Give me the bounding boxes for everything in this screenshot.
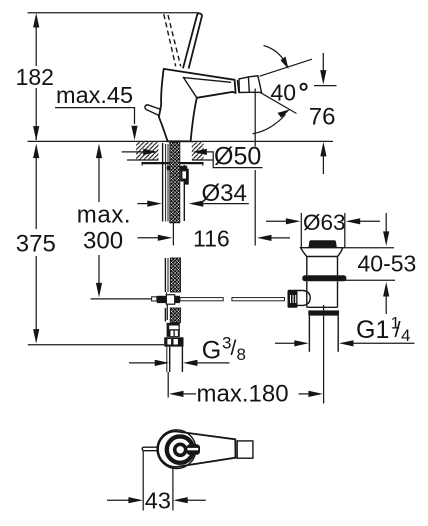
waste body upper: [306, 257, 308, 276]
dim arrows G1 1/4: [275, 340, 415, 346]
svg-text:4: 4: [401, 326, 410, 345]
40 degree lower line: [261, 93, 297, 114]
spout tip block: [239, 76, 262, 93]
deck bottom lines: [127, 159, 159, 161]
svg-text:116: 116: [193, 226, 230, 252]
upper arc with arrowhead: [264, 46, 287, 65]
dim arrows G3/8: [129, 360, 230, 366]
svg-text:Ø50: Ø50: [214, 142, 261, 170]
svg-text:375: 375: [16, 231, 56, 258]
svg-text:76: 76: [309, 104, 336, 131]
svg-text:max.: max.: [77, 202, 131, 229]
svg-text:max.45: max.45: [56, 82, 133, 108]
dim 182 vertical line: [33, 13, 39, 141]
diameter 63 extension lines: [300, 213, 302, 248]
outer thin circle: [157, 430, 196, 469]
deck reference line: [28, 140, 334, 142]
waste flange: [301, 248, 343, 257]
lower arc with arrowhead: [253, 115, 286, 134]
svg-text:40-53: 40-53: [358, 250, 417, 276]
temperature limiter pin (side view): [145, 105, 161, 116]
bottom reference line of 375: [28, 344, 164, 346]
dim 375 vertical line: [33, 144, 39, 344]
dim arrows diameter 50: [122, 149, 263, 168]
dim arrows 43: [107, 497, 206, 503]
svg-text:Ø63: Ø63: [303, 210, 346, 235]
lever stub top view: [187, 444, 201, 455]
waste top cap: [309, 240, 337, 247]
svg-text:Ø34: Ø34: [202, 180, 247, 207]
top reference line: [28, 12, 200, 14]
spout tip extension line: [254, 89, 256, 147]
dim arrows diameter 63: [266, 218, 380, 224]
shank and hoses upper segment: [162, 143, 164, 222]
dim 76 lower arrow at deck: [320, 142, 326, 174]
horizontal rod segment 2: [232, 298, 285, 301]
body outline top view: [158, 431, 236, 467]
locknut: [167, 166, 188, 170]
dim arrows diameter 34: [138, 201, 249, 207]
rod junction on faucet: [152, 297, 157, 301]
faucet centre line below hose: [172, 222, 174, 246]
dim 43 extension lines: [142, 451, 144, 511]
washer under deck: [142, 162, 204, 164]
svg-text:max.180: max.180: [197, 380, 289, 407]
waste body lower: [306, 281, 308, 307]
dim 76 upper: [314, 53, 337, 86]
side port tube: [297, 291, 311, 306]
G3/8 connector tube: [166, 347, 168, 372]
dim 116 left arrow: [138, 235, 173, 241]
svg-text:G: G: [202, 337, 221, 365]
temperature pin (top view): [142, 447, 158, 451]
dim 116: [257, 235, 290, 241]
hose middle segment: [164, 258, 166, 292]
svg-text:43: 43: [145, 487, 171, 513]
spout block top view: [237, 441, 253, 458]
vertical pop-up rod through junction: [166, 292, 168, 304]
faucet body outline: [159, 69, 236, 141]
deck hatch right: [192, 142, 204, 159]
horizontal rod segment 1: [180, 298, 223, 301]
tailpiece: [308, 316, 310, 352]
cartridge thick ring: [167, 436, 193, 462]
40 degree upper line: [260, 59, 312, 76]
deck hatch left: [136, 142, 159, 159]
mounting bracket: [180, 169, 189, 185]
spout inner top surface: [184, 78, 233, 98]
aerator block: [237, 80, 239, 93]
compression nut bands: [308, 310, 339, 315]
centre line below G3/8: [167, 372, 169, 398]
hose nut: [164, 337, 183, 346]
svg-text:300: 300: [83, 228, 123, 255]
svg-text:40: 40: [271, 79, 297, 105]
inner thick ring: [175, 444, 186, 455]
hose third segment: [164, 308, 166, 322]
svg-text:182: 182: [16, 64, 54, 90]
pipe reference line: [91, 298, 152, 300]
waste centre line: [323, 305, 325, 404]
o-ring: [302, 275, 346, 281]
svg-text:8: 8: [237, 345, 246, 364]
dim max300 vertical line: [96, 144, 102, 298]
svg-text:G1: G1: [356, 316, 389, 344]
knurled knob: [288, 290, 298, 308]
dim 40-53: [341, 213, 395, 314]
dim max.180: [169, 391, 323, 397]
lever handle (solid): [183, 13, 202, 68]
hose ferrule: [167, 323, 180, 337]
lever handle alternate position (dashed): [164, 14, 176, 66]
